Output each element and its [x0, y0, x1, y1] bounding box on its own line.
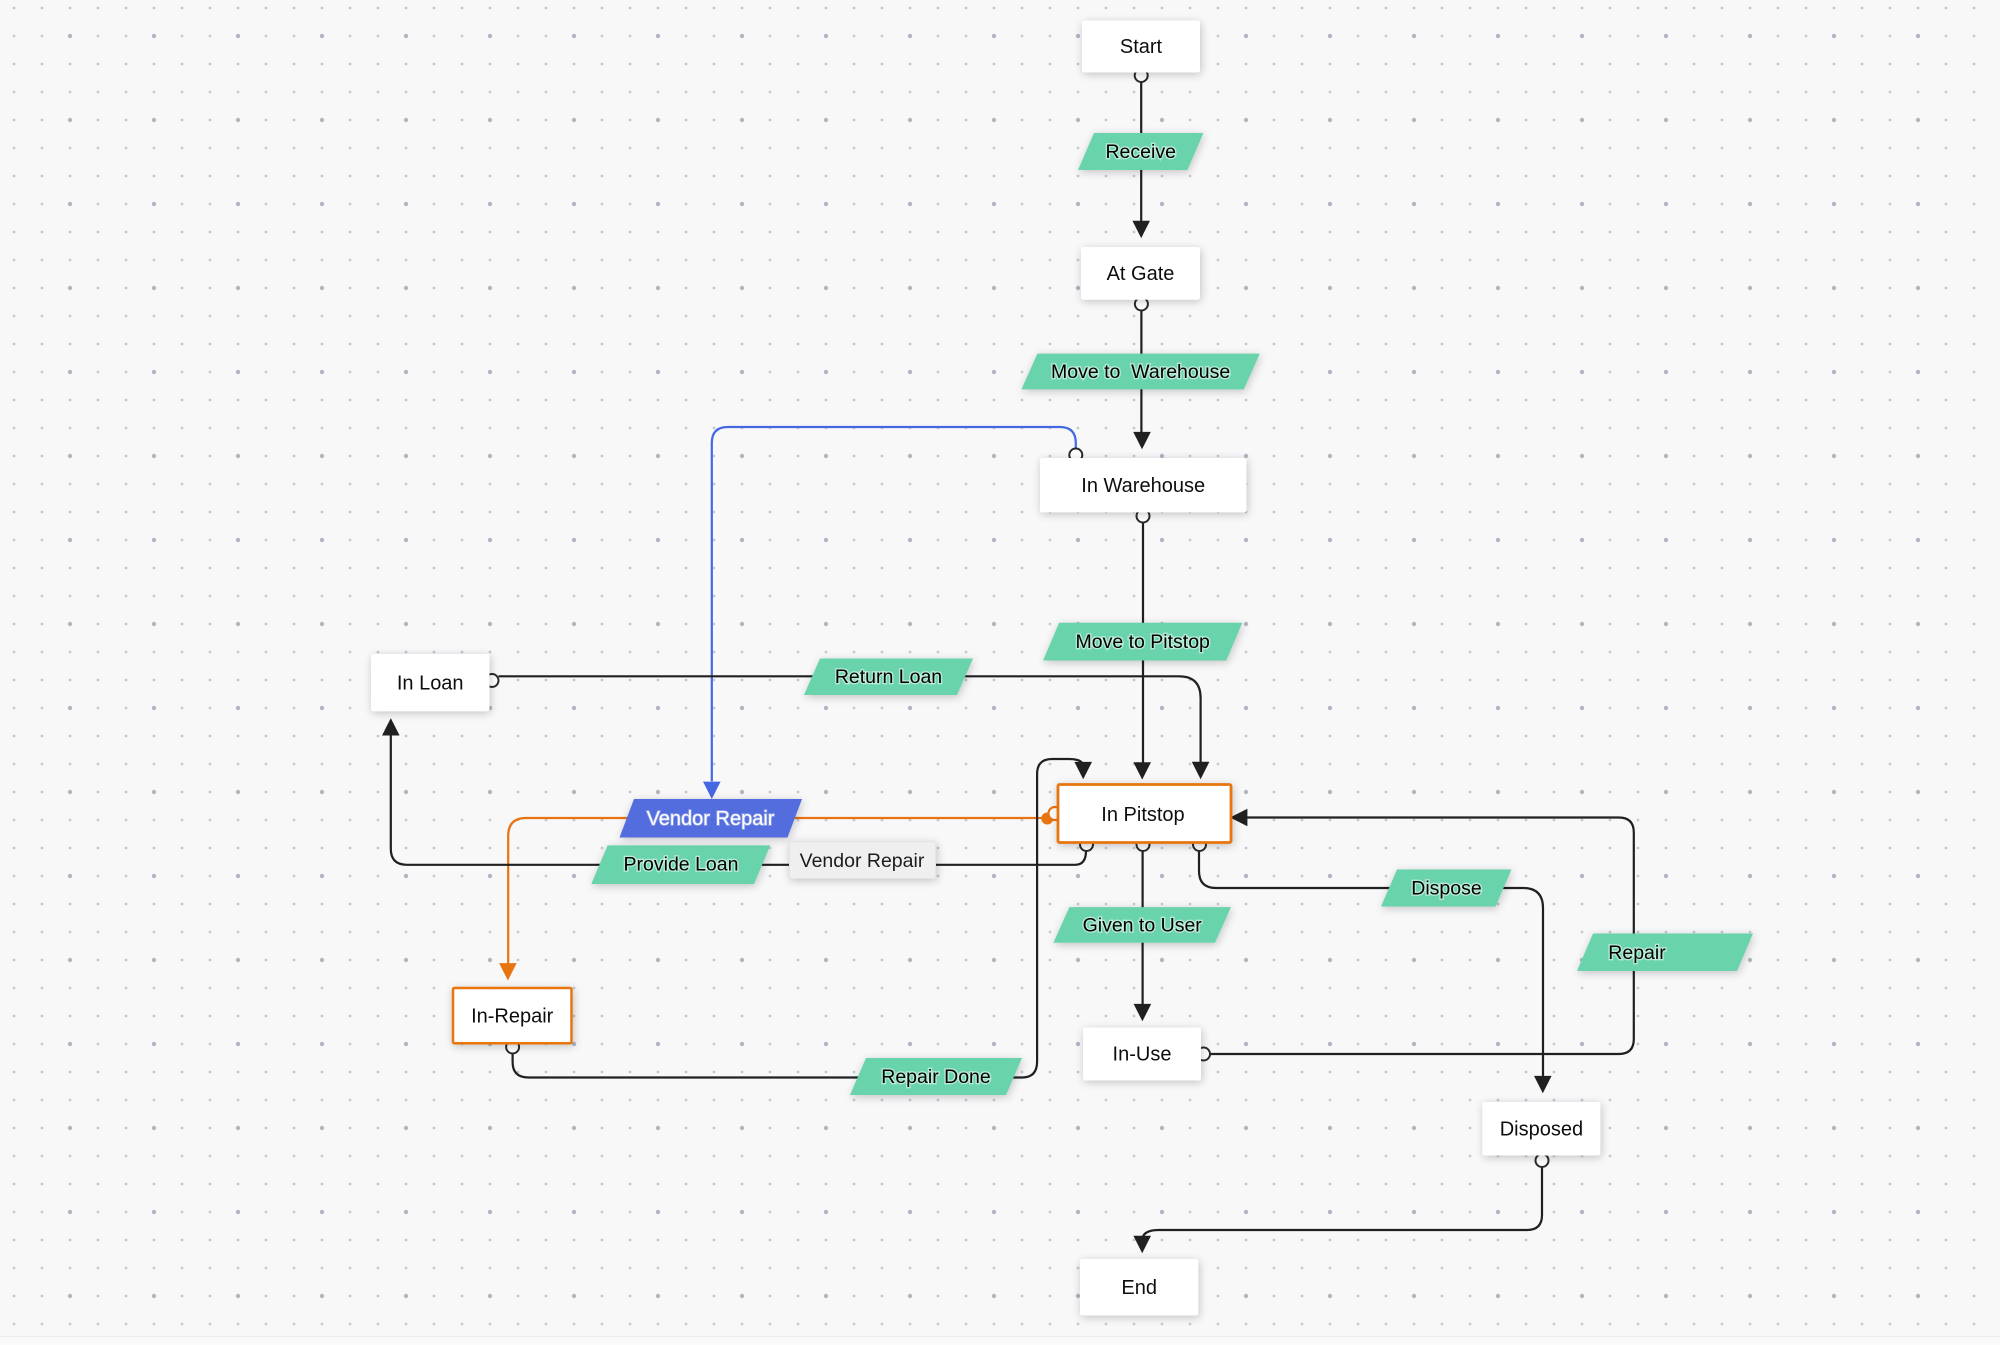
label Vendor Repair (gray) [790, 842, 936, 879]
edge In Pitstop to In Loan (Provide Loan) [382, 718, 1086, 865]
svg-text:Move to Warehouse: Move to Warehouse [1051, 361, 1230, 383]
label Provide Loan [591, 845, 770, 884]
svg-text:Return Loan: Return Loan [835, 666, 942, 688]
svg-text:Disposed: Disposed [1500, 1119, 1583, 1141]
node Disposed [1482, 1102, 1600, 1156]
edge In Pitstop to In-Repair (orange) [499, 818, 1048, 981]
label Given to User [1053, 907, 1231, 943]
svg-text:Provide Loan: Provide Loan [624, 853, 739, 875]
label Move to Pitstop [1043, 623, 1242, 661]
port In Loan right [486, 674, 499, 687]
svg-text:Repair Done: Repair Done [881, 1066, 990, 1088]
node In Warehouse [1040, 458, 1247, 512]
port In Pitstop left (orange) [1049, 807, 1062, 820]
edge In Warehouse to Vendor Repair (blue) [703, 427, 1076, 799]
svg-text:End: End [1121, 1277, 1157, 1299]
label Receive [1078, 133, 1203, 170]
label Repair [1577, 934, 1753, 972]
svg-text:In-Repair: In-Repair [471, 1006, 554, 1028]
port At Gate bottom [1135, 298, 1148, 311]
svg-text:Given to User: Given to User [1083, 914, 1203, 936]
port In Warehouse top [1069, 449, 1082, 462]
node In-Use [1083, 1028, 1201, 1081]
svg-text:Vendor Repair: Vendor Repair [800, 850, 925, 872]
node Start [1082, 21, 1200, 73]
label Dispose [1381, 870, 1512, 907]
port In Pitstop bottom right [1193, 838, 1206, 851]
svg-text:In-Use: In-Use [1113, 1044, 1172, 1066]
edge In Warehouse to In Pitstop [1133, 523, 1151, 780]
svg-text:In Warehouse: In Warehouse [1081, 475, 1205, 497]
node In-Repair [453, 988, 572, 1043]
label Move to Warehouse [1021, 354, 1259, 390]
node At Gate [1081, 247, 1200, 300]
edge In-Repair to In Pitstop (Repair Done) [513, 759, 1092, 1078]
label Vendor Repair (blue) [620, 799, 803, 838]
port In-Use right [1197, 1048, 1210, 1061]
port In Pitstop bottom middle [1137, 838, 1150, 851]
edge In Pitstop to In-Use (Given to User) [1134, 851, 1152, 1021]
junction orange dot at In Pitstop left [1041, 813, 1053, 825]
edge Start to At Gate [1132, 82, 1150, 238]
edge Disposed to End [1133, 1167, 1542, 1253]
port In Warehouse bottom [1137, 510, 1150, 523]
node In Pitstop [1058, 785, 1231, 843]
port In Pitstop bottom left [1080, 838, 1093, 851]
edge In Loan to In Pitstop (Return Loan) [499, 676, 1210, 779]
edge In-Use to In Pitstop (Repair) [1210, 809, 1634, 1054]
svg-text:Repair: Repair [1608, 942, 1666, 964]
port Disposed bottom [1536, 1154, 1549, 1167]
svg-text:Move to Pitstop: Move to Pitstop [1075, 631, 1210, 653]
svg-text:Start: Start [1120, 36, 1163, 58]
svg-text:At Gate: At Gate [1107, 263, 1175, 285]
label Return Loan [804, 659, 973, 696]
svg-text:In Loan: In Loan [397, 673, 464, 695]
svg-text:Dispose: Dispose [1411, 878, 1481, 900]
svg-text:In Pitstop: In Pitstop [1101, 804, 1184, 826]
node End [1080, 1259, 1198, 1316]
port Start bottom [1135, 69, 1148, 82]
svg-text:Vendor Repair: Vendor Repair [647, 808, 775, 830]
edge At Gate to In Warehouse [1133, 311, 1151, 450]
edge In Pitstop to Disposed (Dispose) [1199, 851, 1552, 1093]
label Repair Done [850, 1058, 1022, 1095]
node In Loan [371, 654, 490, 711]
port In-Repair bottom [506, 1041, 519, 1054]
svg-text:Receive: Receive [1105, 141, 1175, 163]
